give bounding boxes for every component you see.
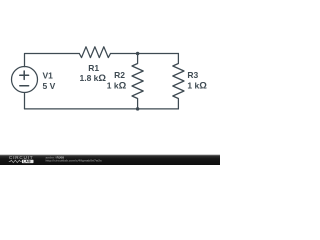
wire top rail left segment (25, 54, 80, 67)
resistor R2 (132, 54, 143, 109)
resistor R3 (173, 54, 184, 109)
svg-text:LAB: LAB (23, 160, 31, 164)
resistor R1 (79, 47, 110, 58)
wire bottom rail (25, 108, 179, 110)
watermark credit text (46, 155, 102, 162)
node at R2 top (136, 52, 140, 56)
svg-text:V1: V1 (43, 71, 54, 81)
svg-text:1.8 kΩ: 1.8 kΩ (80, 73, 107, 84)
svg-text:R2: R2 (114, 70, 125, 80)
node at R2 bottom (136, 107, 140, 111)
svg-text:1 kΩ: 1 kΩ (187, 81, 207, 92)
voltage source V1 (12, 67, 38, 93)
wire top rail right segment (111, 53, 179, 55)
svg-text:1 kΩ: 1 kΩ (107, 81, 127, 92)
wire V1 bottom lead (24, 93, 26, 109)
svg-text:R3: R3 (187, 70, 198, 80)
svg-text:R1: R1 (88, 63, 99, 73)
watermark CircuitLab logo (9, 155, 34, 163)
svg-text:5 V: 5 V (43, 81, 56, 91)
svg-text:http://circuitlab.com/c/49gmab: http://circuitlab.com/c/49gmab8rt7w2x (46, 159, 102, 163)
